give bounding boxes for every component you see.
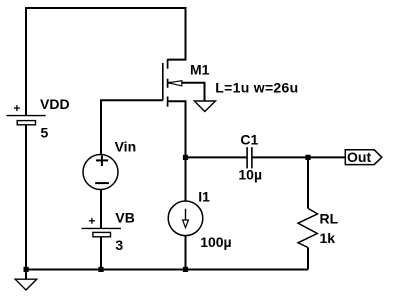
svg-text:VB: VB bbox=[115, 209, 134, 225]
svg-text:Vin: Vin bbox=[115, 139, 137, 155]
svg-text:100µ: 100µ bbox=[200, 234, 231, 250]
svg-text:L=1u w=26u: L=1u w=26u bbox=[215, 80, 298, 96]
svg-text:1k: 1k bbox=[320, 230, 336, 246]
svg-text:5: 5 bbox=[41, 124, 49, 140]
svg-text:Out: Out bbox=[347, 149, 371, 165]
svg-text:I1: I1 bbox=[198, 189, 210, 205]
svg-text:VDD: VDD bbox=[40, 96, 70, 112]
svg-text:C1: C1 bbox=[240, 132, 258, 148]
svg-text:M1: M1 bbox=[190, 62, 210, 78]
svg-text:RL: RL bbox=[320, 210, 339, 226]
svg-text:3: 3 bbox=[115, 237, 123, 253]
svg-text:10µ: 10µ bbox=[238, 167, 262, 183]
